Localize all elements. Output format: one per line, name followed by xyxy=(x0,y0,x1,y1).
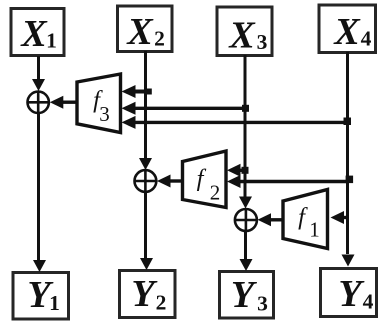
box Y3 xyxy=(220,272,274,319)
wire XOR3 down to Y3 xyxy=(244,231,247,259)
XOR node 1 xyxy=(28,92,49,113)
arrowhead f2 input 2 xyxy=(227,175,241,188)
wire X4 down to Y4 xyxy=(346,52,349,254)
junction X4/f2 xyxy=(346,176,354,184)
arrowhead into XOR1 xyxy=(32,79,45,91)
svg-text:Y: Y xyxy=(231,274,258,316)
svg-text:X: X xyxy=(126,11,154,53)
svg-text:1: 1 xyxy=(309,218,320,242)
f-box f3 xyxy=(77,74,121,133)
junction X3/f2 xyxy=(242,167,249,174)
svg-text:4: 4 xyxy=(363,290,374,314)
svg-text:Y: Y xyxy=(131,273,158,315)
arrowhead f2 output xyxy=(157,175,171,188)
svg-text:4: 4 xyxy=(361,27,372,51)
svg-text:3: 3 xyxy=(257,292,268,316)
wire X1 down to XOR1 xyxy=(37,56,40,80)
svg-text:X: X xyxy=(228,15,256,57)
arrowhead f3 input 2 xyxy=(122,102,136,115)
arrowhead f3 output xyxy=(50,96,64,109)
junction X2/f3 xyxy=(147,89,152,95)
XOR node 2 xyxy=(135,170,157,192)
arrowhead into Y2 xyxy=(140,258,153,270)
box Y4 xyxy=(321,269,377,317)
arrowhead into XOR2 xyxy=(139,158,152,170)
svg-text:2: 2 xyxy=(156,291,167,315)
wire X2 to f3 input 1 xyxy=(134,90,147,94)
f-box f2 xyxy=(183,151,227,208)
arrowhead into Y1 xyxy=(33,260,46,272)
svg-text:1: 1 xyxy=(46,29,57,53)
arrowhead f2 input 1 xyxy=(227,164,241,177)
box X1 xyxy=(11,9,64,56)
XOR node 3 xyxy=(235,209,257,231)
svg-text:Y: Y xyxy=(338,273,365,315)
arrowhead f3 input 3 xyxy=(122,116,136,129)
box X3 xyxy=(217,7,272,57)
arrowhead into Y3 xyxy=(240,259,253,271)
wire XOR1 down to Y1 xyxy=(37,91,40,260)
wire f1 output to XOR3 xyxy=(268,218,283,221)
wire X4 to f2 input 2 xyxy=(239,180,349,183)
wire X2 down to XOR2 xyxy=(144,51,147,159)
wire f3 output to XOR1 xyxy=(61,100,77,103)
svg-text:3: 3 xyxy=(99,102,110,126)
box Y2 xyxy=(120,271,176,318)
box X4 xyxy=(319,5,376,53)
arrowhead f3 input 1 xyxy=(122,85,136,98)
wire XOR2 down to Y2 xyxy=(144,192,147,258)
wire X3 down to XOR3 xyxy=(244,55,247,197)
arrowhead into XOR3 xyxy=(239,197,252,209)
junction X3/f3 xyxy=(242,105,249,112)
wire f2 output to XOR2 xyxy=(168,179,183,182)
box Y1 xyxy=(13,273,69,320)
wire X3 to f2 input 1 xyxy=(239,169,246,172)
svg-text:X: X xyxy=(20,13,48,55)
arrowhead f1 input xyxy=(331,211,345,224)
junction X4/f3 xyxy=(344,118,352,126)
svg-text:1: 1 xyxy=(49,291,60,315)
svg-text:3: 3 xyxy=(257,30,268,54)
svg-text:2: 2 xyxy=(210,181,221,205)
arrowhead into Y4 xyxy=(342,255,355,267)
wire X4 to f3 input 3 xyxy=(133,121,348,124)
box X2 xyxy=(118,6,173,53)
wire X4 to f1 input xyxy=(342,216,348,219)
f-box f1 xyxy=(283,190,328,249)
svg-text:X: X xyxy=(333,11,361,53)
svg-text:2: 2 xyxy=(154,27,165,51)
wire X3 to f3 input 2 xyxy=(133,107,246,110)
arrowhead f1 output xyxy=(258,213,272,226)
